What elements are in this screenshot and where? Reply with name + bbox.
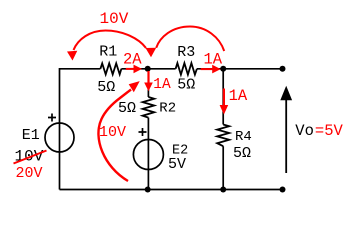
svg-text:5Ω: 5Ω [97,79,115,96]
node B [220,66,226,72]
red 1A arrow at node A (down) [147,71,149,83]
svg-text:1A: 1A [229,87,248,105]
svg-text:Vo: Vo [295,122,314,140]
wire right branch upper [222,69,224,125]
red 1A arrow on R4 branch (down) [223,89,225,107]
svg-text:10V: 10V [100,10,129,28]
svg-text:E1: E1 [22,127,40,144]
node A [145,66,151,72]
wire node B to right end [223,68,282,70]
strike line over 10V [14,151,47,164]
red curved 10V arrow middle [98,90,131,182]
svg-text:5Ω: 5Ω [118,100,136,117]
wire top left segment [60,69,101,123]
svg-text:1A: 1A [153,77,171,93]
svg-text:1A: 1A [204,50,223,68]
resistor R1 [100,63,121,74]
svg-text:5Ω: 5Ω [177,77,195,94]
voltage source E1 [45,123,74,152]
Vo arrow [285,97,287,173]
wire R2 to E2 [147,118,149,190]
wire node A to R3 [148,68,176,70]
svg-text:5Ω: 5Ω [233,145,251,162]
red 2A arrow [126,68,136,70]
svg-text:R3: R3 [177,44,195,61]
wire middle branch upper [147,69,149,97]
red arc 10V left [74,31,147,51]
wire bottom [60,189,283,191]
node bottom right [280,187,286,193]
red arrowhead left end of arc [67,51,77,61]
plus sign E1 [48,114,56,122]
svg-text:R2: R2 [159,101,176,117]
wire left branch lower [59,123,61,190]
voltage source E2 [133,140,163,170]
node bottom middle [145,187,151,193]
wire R3 to node B [197,68,223,70]
svg-text:10V: 10V [99,124,126,141]
svg-text:2A: 2A [123,50,142,68]
red arrowhead middle (down) [146,48,157,57]
red 1A arrow before node B [201,68,214,70]
resistor R3 [176,63,197,75]
plus sign E2 [139,128,147,136]
svg-text:=5V: =5V [315,122,344,140]
svg-text:R4: R4 [235,129,252,145]
svg-text:R1: R1 [99,44,117,61]
red arc right [156,27,224,52]
wire R1 to node A [121,68,147,70]
node bottom R4 [220,187,226,193]
wire R4 to bottom [222,146,224,189]
resistor R2 [143,97,155,118]
svg-text:20V: 20V [16,165,43,182]
resistor R4 [217,125,229,147]
node top right [280,66,286,72]
svg-text:5V: 5V [168,156,186,173]
